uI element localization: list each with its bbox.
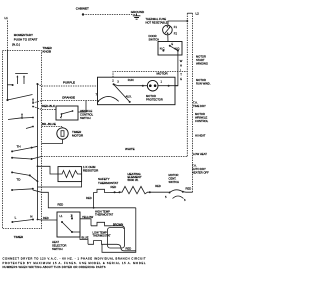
label TIMER MOTOR <box>72 130 84 138</box>
door switch contacts <box>160 42 181 52</box>
wire BR-BLUE <box>42 122 63 128</box>
label MOTOR PROTECTOR <box>146 94 163 101</box>
resistor R1 1K OHM <box>58 167 82 182</box>
svg-text:F2: F2 <box>174 31 178 35</box>
label HIGH TEMP THERMOSTAT <box>95 209 113 216</box>
label TA TIME DRY <box>193 101 206 108</box>
junction node <box>111 191 120 193</box>
label MOTOR START WINDING <box>196 55 208 66</box>
svg-text:BLUE: BLUE <box>82 236 89 240</box>
wire timer motor return <box>42 139 63 143</box>
timer cam switches upper <box>6 95 33 129</box>
timer contact L N <box>11 214 34 223</box>
svg-text:RED: RED <box>58 203 64 207</box>
svg-text:SWITCH: SWITCH <box>149 37 160 41</box>
timer bus <box>37 84 39 220</box>
wire fuse to door switch <box>167 35 169 42</box>
svg-text:RED: RED <box>43 216 49 220</box>
svg-text:RESISTOR: RESISTOR <box>83 168 99 172</box>
svg-text:GROUND: GROUND <box>131 10 145 14</box>
wire RED main <box>33 190 136 209</box>
svg-text:CABINET: CABINET <box>76 7 89 11</box>
note text <box>3 257 147 270</box>
timer contact TD <box>11 171 37 191</box>
svg-text:AUTO DRY: AUTO DRY <box>192 167 206 171</box>
wire ORANGE <box>33 95 98 103</box>
svg-text:RUN: RUN <box>128 78 134 82</box>
motor start switch internals <box>96 78 148 103</box>
label TA AUTO DRY HEATER OFF <box>192 164 209 175</box>
label MOTOR WRINKLE CONTROL <box>195 112 209 123</box>
ground symbol <box>133 14 141 20</box>
svg-text:MOTOR: MOTOR <box>72 134 84 138</box>
svg-text:ORANGE: ORANGE <box>62 95 75 99</box>
svg-text:BR.-BLUE: BR.-BLUE <box>42 122 56 126</box>
labels F1 F2 <box>174 25 178 35</box>
node L1 <box>5 16 9 20</box>
label SAFETY THERMOSTAT <box>98 177 118 185</box>
svg-text:NOT RESETABLE: NOT RESETABLE <box>146 20 168 24</box>
svg-text:RED-BLK: RED-BLK <box>42 104 55 108</box>
svg-text:N.O.: N.O. <box>175 46 181 50</box>
svg-text:SWITCH: SWITCH <box>52 247 63 251</box>
svg-text:RED: RED <box>155 184 161 188</box>
svg-text:RED: RED <box>111 185 117 189</box>
label GROUND <box>131 10 145 14</box>
svg-text:PROTECTED BY MAXIMUM 15 A. FUS: PROTECTED BY MAXIMUM 15 A. FUSES. USE MO… <box>3 261 147 265</box>
svg-text:KNOB: KNOB <box>43 50 52 54</box>
svg-text:WINDING: WINDING <box>196 61 208 65</box>
svg-text:T.A.: T.A. <box>192 164 197 168</box>
svg-text:HEAT: HEAT <box>52 240 59 244</box>
svg-text:PUSH TO START: PUSH TO START <box>14 37 38 41</box>
wire cabinet to ground <box>83 14 137 16</box>
label HEATING ELEMENT 5600 W <box>128 172 142 182</box>
label THERMAL FUSE NOT RESETABLE <box>146 17 168 24</box>
svg-text:LOW HEAT: LOW HEAT <box>193 152 207 156</box>
svg-text:T.A.: T.A. <box>193 101 198 105</box>
svg-text:MOTOR: MOTOR <box>169 173 179 177</box>
svg-text:F1: F1 <box>174 25 178 29</box>
svg-text:CONNECT DRYER TO 120 V.A.C. -: CONNECT DRYER TO 120 V.A.C. - 60 HZ. - 1… <box>3 257 146 261</box>
svg-text:START: START <box>196 58 205 62</box>
svg-text:RED: RED <box>186 187 192 191</box>
svg-text:TIMER: TIMER <box>14 235 24 239</box>
wire element to switch <box>150 191 169 193</box>
svg-text:NUMBERS WHEN WRITING ABOUT THI: NUMBERS WHEN WRITING ABOUT THIS DRYER OR… <box>3 265 106 269</box>
svg-text:YELLOW: YELLOW <box>82 215 94 219</box>
label CABINET <box>76 7 89 11</box>
svg-text:HIGH TEMP: HIGH TEMP <box>95 209 110 213</box>
push contacts <box>7 51 38 100</box>
high temp thermostat <box>91 222 111 226</box>
wire door switch white <box>175 51 178 86</box>
label HEAT SELECTOR SWITCH <box>52 240 66 251</box>
svg-text:L2: L2 <box>196 12 200 16</box>
label DOOR SWITCH <box>149 34 160 41</box>
svg-text:THERMAL FUSE: THERMAL FUSE <box>146 17 167 21</box>
wire aux run top <box>113 72 187 78</box>
push-to-start button <box>15 74 28 85</box>
svg-text:WRINKLE: WRINKLE <box>195 115 207 119</box>
svg-text:MOTOR: MOTOR <box>196 78 206 82</box>
label RED (switch right) <box>186 187 192 191</box>
label LOW HEAT <box>193 152 207 156</box>
wire brown loop <box>108 226 125 248</box>
node cabinet <box>82 13 84 15</box>
svg-text:CENT.: CENT. <box>169 176 177 180</box>
svg-text:TH: TH <box>17 145 21 149</box>
svg-text:MOTOR: MOTOR <box>196 55 206 59</box>
svg-text:E: E <box>180 77 182 81</box>
label MOMENTARY PUSH TO START <box>12 33 38 47</box>
motor centrifugal switch <box>165 190 186 202</box>
wire resistor return <box>38 182 82 187</box>
safety thermostat <box>86 189 111 208</box>
svg-text:(N.O.): (N.O.) <box>12 43 20 47</box>
label 1 K OHM RESISTOR <box>83 165 99 173</box>
label MOTOR RUN WIND <box>196 78 211 85</box>
label RED (element right) <box>155 184 161 188</box>
timer contact TH <box>11 145 41 161</box>
svg-text:LOW TEMP: LOW TEMP <box>93 230 107 234</box>
svg-text:L1: L1 <box>5 16 9 20</box>
low temp thermostat <box>88 241 114 245</box>
svg-text:THERMOSTAT: THERMOSTAT <box>95 213 113 217</box>
motor box <box>98 77 176 105</box>
svg-text:SWITCH: SWITCH <box>80 116 91 120</box>
svg-text:5600 W.: 5600 W. <box>128 178 139 182</box>
svg-text:H: H <box>180 64 182 68</box>
wire YELLOW <box>80 215 94 226</box>
wire thermal fuse feed <box>168 21 187 25</box>
wire timer to heat selector RED <box>38 216 58 220</box>
motor protector <box>147 80 178 91</box>
heating element 5600 W <box>119 186 151 193</box>
svg-text:MOTOR: MOTOR <box>195 112 205 116</box>
wire PURPLE <box>37 81 97 87</box>
svg-text:PURPLE: PURPLE <box>63 81 75 85</box>
wrinkle control switch box <box>56 106 78 120</box>
svg-text:HEATER OFF: HEATER OFF <box>192 170 209 174</box>
svg-text:RUN WIND.: RUN WIND. <box>196 81 211 85</box>
wire BLUE <box>72 232 89 244</box>
wire RED-BLK <box>33 104 56 110</box>
resistor feed wire <box>38 166 59 174</box>
wire low temp out RED <box>114 244 136 251</box>
timer motor <box>57 128 68 139</box>
label TIMER <box>14 235 24 239</box>
svg-text:N: N <box>30 214 32 218</box>
label LOW TEMP THERMOSTAT <box>93 230 111 237</box>
label MOTOR <box>157 72 169 76</box>
label RED (safety out) <box>111 185 117 189</box>
wire WHITE <box>42 147 188 157</box>
svg-text:MOTOR: MOTOR <box>146 94 156 98</box>
svg-text:SWITCH: SWITCH <box>169 180 180 184</box>
svg-text:MOTOR: MOTOR <box>157 72 169 76</box>
thermal fuse F1 <box>163 25 173 35</box>
svg-text:E: E <box>171 42 173 46</box>
door switch box <box>158 42 182 56</box>
svg-text:L1: L1 <box>60 214 63 218</box>
heat selector switch box <box>57 212 80 237</box>
svg-text:MOMENTARY: MOMENTARY <box>14 33 33 37</box>
node L2 <box>196 12 200 16</box>
svg-text:TIME DRY: TIME DRY <box>193 104 206 108</box>
wire L1 feed <box>6 21 8 51</box>
wire L2 bus B <box>187 13 192 192</box>
svg-text:RED: RED <box>86 196 92 200</box>
svg-text:N.C.: N.C. <box>160 46 166 50</box>
svg-text:CONTROL: CONTROL <box>195 119 209 123</box>
svg-text:RED: RED <box>126 247 132 251</box>
svg-text:WHITE: WHITE <box>125 147 135 151</box>
wire outer loop <box>102 208 136 253</box>
svg-text:PROTECTOR: PROTECTOR <box>146 97 163 101</box>
vertical label WHITE <box>180 59 183 81</box>
label BROWN <box>113 222 123 226</box>
svg-text:THERMOSTAT: THERMOSTAT <box>98 181 118 185</box>
svg-text:THERMOSTAT: THERMOSTAT <box>93 234 111 238</box>
wire heater to L2 bus <box>183 191 193 194</box>
wire wrinkle to orange <box>78 101 86 113</box>
label HI HEAT <box>195 134 206 138</box>
label WRINKLE CONTROL SWITCH <box>80 109 94 120</box>
svg-text:W: W <box>180 59 183 63</box>
timer box <box>2 51 41 229</box>
label MOTOR CENT SWITCH <box>169 173 180 184</box>
svg-text:SELECTOR: SELECTOR <box>52 243 66 247</box>
svg-text:HI HEAT: HI HEAT <box>195 134 206 138</box>
svg-text:AUX.: AUX. <box>126 95 133 99</box>
svg-text:DOOR: DOOR <box>149 34 157 38</box>
label TIMER KNOB <box>43 46 53 53</box>
svg-text:CONTROL: CONTROL <box>80 112 94 116</box>
wire L2 bus A <box>186 13 188 156</box>
